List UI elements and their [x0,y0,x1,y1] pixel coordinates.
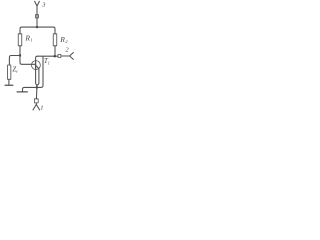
pad square on terminal 1 lead [34,99,38,103]
svg-text:2: 2 [65,46,69,53]
pad square on terminal 2 lead [58,54,61,57]
impedance Ze box [8,65,11,79]
terminal 2 arrow [70,53,74,60]
ground (bottom middle) [17,91,27,93]
wire R2 bottom [54,46,56,56]
node junction dot output [54,55,56,57]
wire R1 bottom [19,46,21,56]
wire top rail [20,27,55,34]
wire collector feedback drop [37,56,43,87]
svg-text:e: e [16,69,18,74]
wire left leg down (chord continuation) [36,69,37,87]
svg-text:2: 2 [65,39,68,44]
wire Ze to ground [8,79,10,84]
wire terminal 3 stem [36,6,38,27]
wire U bottom joint [36,85,39,86]
transistor T1 base bar [35,61,37,69]
node junction dot bottom node [36,86,38,88]
node junction dot rail/terminal3 [36,26,38,28]
wire base path [20,56,36,65]
transistor emitter diagonal [36,65,39,69]
wire emitter leg down [38,69,39,85]
wire input line [9,56,20,66]
terminal 1 arrow [33,105,40,110]
resistor R1 [18,34,22,46]
pad square on terminal 3 lead [36,15,39,18]
transistor T1 envelope [31,61,40,70]
svg-text:1: 1 [30,38,32,43]
svg-text:3: 3 [41,2,46,9]
wire output line [37,55,58,57]
terminal 3 arrow [35,1,40,6]
resistor R2 [53,34,57,46]
svg-text:1: 1 [48,60,50,65]
ground (below Ze) [5,84,13,86]
wire terminal 1 stem [35,88,38,100]
wire terminal 1 stub [35,103,37,105]
node junction dot base node [19,54,21,56]
wire collector up [36,56,38,61]
svg-text:1: 1 [40,105,43,112]
wire bottom line to ground [23,87,37,91]
wire terminal 2 lead [61,55,70,57]
